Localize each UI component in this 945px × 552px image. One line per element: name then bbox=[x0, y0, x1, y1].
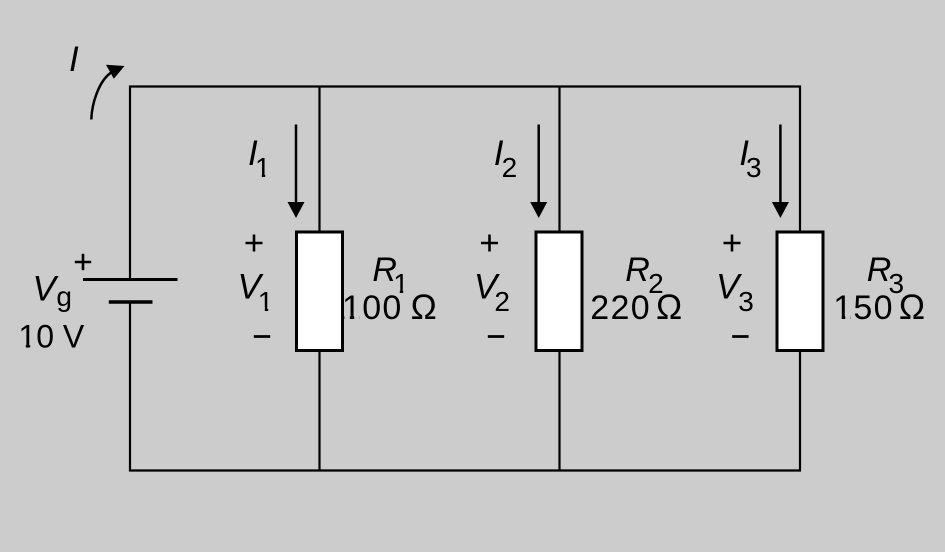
svg-text:100: 100 bbox=[342, 289, 403, 327]
svg-text:3: 3 bbox=[738, 286, 754, 317]
svg-text:Ω: Ω bbox=[656, 288, 682, 327]
svg-text:Ω: Ω bbox=[899, 288, 925, 327]
svg-text:2: 2 bbox=[502, 152, 518, 183]
svg-text:3: 3 bbox=[746, 152, 762, 183]
svg-text:1: 1 bbox=[255, 152, 271, 183]
svg-text:1: 1 bbox=[258, 286, 274, 317]
svg-text:Ω: Ω bbox=[411, 288, 437, 327]
svg-text:2: 2 bbox=[494, 286, 510, 317]
svg-text:220: 220 bbox=[590, 289, 651, 327]
svg-text:150: 150 bbox=[833, 289, 894, 327]
svg-text:10 V: 10 V bbox=[18, 319, 84, 355]
svg-text:I: I bbox=[69, 40, 79, 79]
svg-text:R: R bbox=[625, 251, 650, 289]
svg-text:g: g bbox=[56, 281, 72, 312]
